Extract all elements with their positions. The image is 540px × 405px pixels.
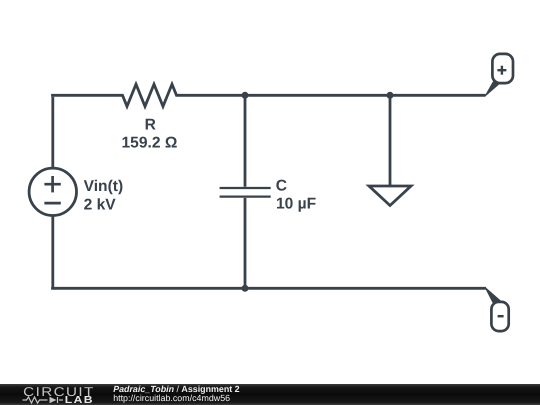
svg-text:C: C — [276, 177, 287, 194]
svg-text:2 kV: 2 kV — [84, 196, 117, 213]
svg-text:10 µF: 10 µF — [276, 195, 316, 212]
svg-text:http://circuitlab.com/c4mdw56: http://circuitlab.com/c4mdw56 — [113, 393, 230, 403]
svg-text:Vin(t): Vin(t) — [84, 178, 124, 195]
svg-text:159.2 Ω: 159.2 Ω — [121, 135, 177, 152]
svg-text:R: R — [145, 116, 156, 133]
svg-text:LAB: LAB — [65, 395, 94, 405]
